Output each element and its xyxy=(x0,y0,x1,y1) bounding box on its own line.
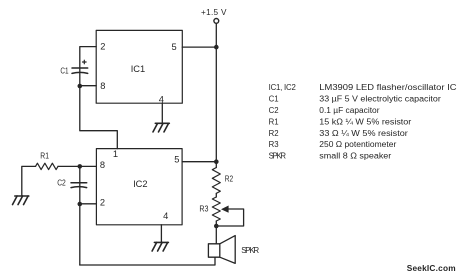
svg-text:SPKR: SPKR xyxy=(269,152,287,161)
wire: node A down and over to IC2 pin 1 xyxy=(80,86,118,149)
wire: R2 to R3 xyxy=(215,193,217,197)
svg-text:R2: R2 xyxy=(225,174,234,183)
wire: IC2 pin 4 to ground xyxy=(160,225,162,242)
svg-text:5: 5 xyxy=(172,42,177,52)
svg-text:R2: R2 xyxy=(269,129,279,138)
wire: ground to R1 left xyxy=(22,166,36,195)
wire: +1.5V rail from terminal down to R2 xyxy=(215,24,217,168)
svg-text:R3: R3 xyxy=(269,140,279,149)
wire: node C down left side to bottom return xyxy=(79,204,81,265)
svg-text:SeekIC.com: SeekIC.com xyxy=(407,263,456,273)
junction dot: rail / IC1 pin 5 xyxy=(214,45,219,50)
junction dot: rail / IC2 pin 5 xyxy=(214,159,219,164)
svg-text:250 Ω potentiometer: 250 Ω potentiometer xyxy=(319,140,396,149)
capacitor C1 bottom plate xyxy=(72,72,88,73)
capacitor C1 top plate xyxy=(72,67,88,69)
svg-text:5: 5 xyxy=(174,155,179,165)
svg-text:IC2: IC2 xyxy=(133,179,147,189)
svg-text:C1: C1 xyxy=(60,66,69,75)
svg-text:+1.5 V: +1.5 V xyxy=(201,8,227,17)
wire: node A to IC1 pin 8 xyxy=(80,85,96,87)
junction dot: node C (C2- / IC2 pin 2) xyxy=(78,202,83,207)
ground (chassis) under IC1 pin 4 xyxy=(153,123,169,132)
wire: IC2 pin 5 to rail xyxy=(182,161,216,163)
speaker SPKR driver box xyxy=(208,244,219,257)
svg-text:IC1, IC2: IC1, IC2 xyxy=(269,83,296,92)
wire: R1 right to IC2 pin 8 xyxy=(58,165,96,167)
ground (chassis) at R1 xyxy=(13,196,29,205)
wire: R3 bottom to speaker xyxy=(215,221,217,244)
IC U2 (IC2 LM3909) body xyxy=(96,149,182,225)
wire: IC1 pin 5 to rail xyxy=(182,46,216,48)
svg-text:33 Ω ¼ W 5% resistor: 33 Ω ¼ W 5% resistor xyxy=(319,129,408,138)
capacitor C1 plus sign xyxy=(83,60,87,64)
svg-text:15 kΩ ¼ W 5% resistor: 15 kΩ ¼ W 5% resistor xyxy=(319,117,411,126)
resistor R1 zigzag xyxy=(36,163,59,169)
svg-text:4: 4 xyxy=(163,211,168,221)
svg-text:R3: R3 xyxy=(199,204,209,213)
capacitor C2 top plate xyxy=(71,182,87,184)
wire: node B to C2 top xyxy=(79,166,81,182)
svg-text:C1: C1 xyxy=(269,95,279,104)
svg-text:1: 1 xyxy=(113,149,118,159)
wire: C1 bottom to node A xyxy=(79,68,81,86)
potentiometer R3 zigzag xyxy=(212,197,220,221)
wire: IC1 pin 4 to ground xyxy=(161,103,163,123)
svg-text:C2: C2 xyxy=(269,106,279,115)
speaker SPKR cone xyxy=(220,236,235,264)
junction dot: node A (C1- / IC1 pin 8) xyxy=(78,84,83,89)
svg-text:IC1: IC1 xyxy=(131,64,145,74)
svg-text:8: 8 xyxy=(100,81,105,91)
svg-text:C2: C2 xyxy=(57,179,66,188)
IC U1 (IC1 LM3909) body xyxy=(96,30,182,103)
svg-text:33 µF 5 V electrolytic capacit: 33 µF 5 V electrolytic capacitor xyxy=(319,95,441,104)
wire: node C to IC2 pin 2 xyxy=(80,203,97,205)
svg-text:2: 2 xyxy=(100,41,105,51)
potentiometer R3 wiper arrowhead xyxy=(221,206,229,213)
junction dot: node B (R1 / C2 / IC2 pin 8) xyxy=(78,164,83,169)
junction dot: R3 bottom / wiper return xyxy=(214,224,219,229)
svg-text:SPKR: SPKR xyxy=(241,246,259,255)
wire: C2 bottom to node C xyxy=(79,183,81,204)
power terminal xyxy=(214,19,219,24)
capacitor C2 bottom plate xyxy=(71,187,87,188)
svg-text:R1: R1 xyxy=(269,117,279,126)
svg-text:8: 8 xyxy=(100,160,105,170)
svg-text:R1: R1 xyxy=(40,151,49,160)
svg-text:0.1 µF capacitor: 0.1 µF capacitor xyxy=(319,106,380,115)
wire: IC1 pin 2 to C1 top xyxy=(80,47,96,68)
svg-text:4: 4 xyxy=(159,94,164,104)
ground (chassis) under IC2 pin 4 xyxy=(152,242,168,251)
resistor R2 zigzag xyxy=(212,168,220,194)
wire: wiper loop to R3 bottom xyxy=(216,209,243,226)
svg-text:2: 2 xyxy=(100,198,105,208)
wire: bottom return to speaker xyxy=(80,257,215,265)
svg-text:small 8 Ω speaker: small 8 Ω speaker xyxy=(319,152,391,161)
svg-text:LM3909 LED flasher/oscillator: LM3909 LED flasher/oscillator IC xyxy=(319,83,457,92)
